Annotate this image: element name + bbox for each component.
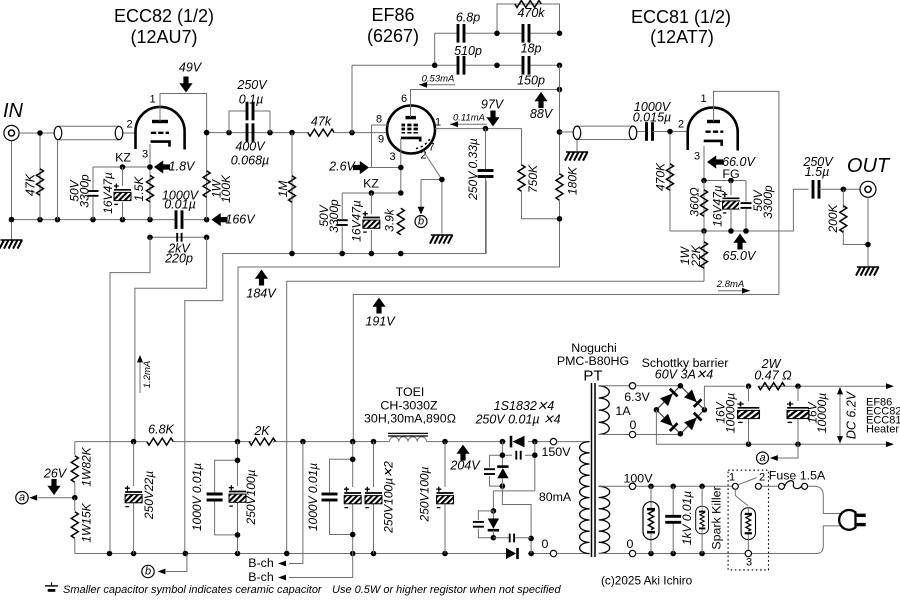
2.6V marker [328, 160, 369, 175]
snubber wire row1 [490, 442, 538, 491]
svg-text:1.2mA: 1.2mA [142, 361, 153, 388]
svg-text:250V22µ: 250V22µ [142, 471, 156, 520]
resistor 1M [276, 133, 296, 254]
svg-text:0: 0 [630, 418, 637, 432]
svg-text:200K: 200K [826, 203, 840, 233]
ground EF86 pin7 [430, 235, 453, 244]
resistor 1W15K [71, 498, 93, 554]
resistor 6.8K [147, 423, 175, 446]
191V marker [365, 298, 396, 329]
ECC82 B+ riser [135, 237, 207, 441]
bridge diode BR [684, 413, 701, 430]
capacitor snubber1 [516, 451, 520, 460]
svg-text:2: 2 [678, 119, 684, 131]
terminal 0 HV [542, 537, 557, 557]
node b bottom [142, 554, 187, 578]
resistor 470K ECC81 grid [654, 129, 674, 231]
svg-text:22K: 22K [689, 244, 703, 267]
svg-text:3: 3 [694, 151, 700, 163]
svg-text:60V 3A✕4: 60V 3A✕4 [655, 368, 713, 382]
svg-text:16V47µ: 16V47µ [350, 200, 364, 242]
KZ label [115, 151, 131, 165]
svg-text:88V: 88V [530, 107, 554, 121]
node a right [757, 444, 799, 464]
OUT jack J2 [860, 181, 876, 197]
svg-text:1: 1 [729, 472, 735, 484]
capacitor 50V 3300p ECC81 [739, 181, 775, 232]
capacitor 1000V 0.015µ [633, 100, 688, 141]
66.0V marker [707, 155, 756, 169]
svg-text:(c)2025 Aki Ichiro: (c)2025 Aki Ichiro [601, 574, 693, 588]
shielded cable interstage [560, 126, 647, 151]
166V marker [212, 213, 257, 227]
svg-text:16V47µ: 16V47µ [101, 172, 115, 214]
resistor 47K grid leak [24, 130, 44, 219]
surge lamp 1 [643, 486, 659, 553]
svg-text:2.8mA: 2.8mA [716, 279, 744, 290]
svg-text:180K: 180K [566, 166, 580, 195]
winding HV secondary [557, 442, 590, 554]
wire AC primary bottom [636, 551, 817, 557]
wire B-ch feed 2 [248, 554, 352, 585]
svg-text:(6267): (6267) [367, 26, 419, 46]
title ECC81 [631, 7, 731, 47]
resistor 1W 100K plate load [203, 133, 233, 220]
capacitor 250V 0.1µ [229, 78, 270, 133]
wire feedback row1 [435, 31, 563, 66]
svg-text:6.8p: 6.8p [456, 11, 480, 25]
tube ECC82 plate [152, 120, 168, 123]
fuse F1 [761, 469, 826, 490]
annotation 0.53mA [419, 74, 455, 88]
svg-text:a: a [759, 452, 765, 464]
svg-text:1kV 0.01µ: 1kV 0.01µ [680, 491, 694, 545]
svg-text:1.5µ: 1.5µ [805, 165, 830, 179]
diode D2 [497, 467, 508, 479]
wire screen pin6 [411, 87, 563, 117]
svg-text:ECC82 (1/2): ECC82 (1/2) [114, 6, 214, 26]
b-node arrow EF86 [418, 180, 425, 215]
wire cathode bottom node [670, 189, 809, 234]
svg-text:0: 0 [627, 537, 634, 551]
wire AC to bridge [636, 386, 681, 435]
terminal 100V [624, 472, 654, 557]
svg-text:250V: 250V [236, 78, 268, 92]
capacitor 18p [521, 24, 542, 56]
resistor 1W 22K [678, 231, 708, 281]
wire ECC81 B+ line [353, 295, 779, 442]
tube ECC81 envelope [688, 108, 738, 151]
svg-text:KZ: KZ [363, 177, 379, 191]
svg-text:1.5K: 1.5K [132, 176, 146, 202]
svg-text:TOEI: TOEI [396, 385, 425, 399]
capacitor 16V10000µ h1 [714, 386, 761, 444]
svg-text:3: 3 [746, 557, 752, 569]
svg-text:1: 1 [435, 117, 441, 129]
tube EF86 envelope [387, 106, 435, 154]
wire cathode return line [287, 281, 704, 553]
DC 6.2V span arrow [837, 387, 859, 444]
svg-text:CH-3030Z: CH-3030Z [380, 399, 438, 413]
svg-text:ECC81 (1/2): ECC81 (1/2) [631, 7, 731, 27]
svg-text:100V: 100V [624, 472, 654, 486]
svg-text:2.6V: 2.6V [328, 160, 356, 174]
svg-text:Heater: Heater [866, 424, 899, 436]
svg-text:3300p: 3300p [327, 199, 341, 233]
svg-text:10000µ: 10000µ [724, 393, 738, 433]
wire cathode pin3 [369, 139, 404, 193]
184V marker [246, 270, 277, 301]
svg-text:2K: 2K [253, 424, 270, 438]
svg-text:3: 3 [142, 149, 148, 161]
ECC82 ground riser [110, 237, 150, 553]
svg-text:1000V 0.01µ: 1000V 0.01µ [306, 463, 320, 531]
winding 6.3V heater [599, 386, 630, 435]
tube EF86 screen grids [402, 125, 418, 129]
capacitor snubber4 [493, 534, 531, 543]
svg-text:166V: 166V [225, 213, 256, 227]
svg-text:1W15K: 1W15K [80, 502, 94, 542]
tube EF86 cathode [401, 138, 420, 142]
resistor 470k feedback [515, 1, 546, 21]
tube ECC82 (1/2) envelope [136, 107, 185, 150]
resistor 750K [518, 164, 560, 219]
svg-text:250V 0.01µ ✕4: 250V 0.01µ ✕4 [474, 413, 560, 427]
capacitor 1000V 0.01µ decoupling [162, 189, 200, 229]
svg-text:8: 8 [376, 114, 382, 126]
svg-text:KZ: KZ [115, 151, 131, 165]
svg-text:DC 6.2V: DC 6.2V [845, 390, 859, 439]
rectifier bridge frame [654, 383, 708, 437]
svg-text:470K: 470K [654, 162, 668, 191]
svg-text:191V: 191V [365, 315, 396, 329]
svg-text:1S1832✕4: 1S1832✕4 [494, 399, 555, 413]
svg-text:10000µ: 10000µ [815, 393, 829, 433]
svg-text:Spark Killer: Spark Killer [710, 486, 724, 549]
shielded cable input [54, 126, 123, 219]
tube ECC81 cathode [704, 141, 722, 146]
capacitor 50V 3300p ECC82 cathode [68, 167, 101, 220]
KZ label EF86 [363, 177, 379, 191]
tube EF86 control grid [402, 132, 418, 134]
97V marker [481, 98, 505, 127]
capacitor 250V100µ filter1 [228, 442, 258, 554]
label Schottky [642, 356, 729, 382]
svg-text:OUT: OUT [847, 155, 891, 177]
svg-text:150V: 150V [542, 445, 572, 459]
svg-text:47K: 47K [24, 173, 38, 196]
terminal 6.3V [615, 383, 650, 438]
svg-text:0.015µ: 0.015µ [633, 111, 671, 125]
wire pin8 to cathode [372, 125, 389, 168]
wire B-ch feed 1 [248, 442, 303, 570]
note ceramic symbol [45, 582, 58, 590]
ground cable shield [565, 152, 588, 161]
resistor 360Ω [688, 181, 708, 232]
FG label [722, 167, 739, 181]
wire jack ground drop [11, 141, 13, 240]
svg-text:0.47 Ω: 0.47 Ω [754, 369, 792, 383]
note wattage [332, 584, 562, 596]
annotation 0.11mA [450, 112, 487, 127]
svg-text:7: 7 [428, 142, 434, 154]
node a left [16, 492, 28, 504]
capacitor 16V47µ ECC82 cathode [101, 167, 132, 220]
svg-text:80mA: 80mA [539, 490, 572, 504]
svg-text:6.8K: 6.8K [148, 423, 174, 437]
pin labels EF86 [376, 93, 441, 163]
wire ground rail PSU [75, 551, 551, 557]
svg-text:400V: 400V [235, 140, 266, 154]
wire feedback row2 [352, 63, 562, 133]
wire to plug neutral [816, 526, 842, 554]
svg-text:1M: 1M [276, 181, 290, 198]
resistor 2K [249, 424, 275, 445]
bridge diode TL [660, 389, 677, 406]
svg-text:b: b [145, 566, 151, 578]
title ECC82 [114, 6, 214, 47]
svg-text:PT: PT [583, 368, 602, 385]
svg-text:0.1µ: 0.1µ [239, 93, 264, 107]
IN label [3, 100, 24, 122]
capacitor 1kV 0.01µ [665, 486, 694, 553]
svg-text:30H,30mA,890Ω: 30H,30mA,890Ω [364, 412, 456, 426]
capacitor 16V47µ ECC81 [711, 181, 742, 232]
resistor 200K output [826, 189, 868, 244]
wire ECC81 plate to B+ [714, 91, 779, 294]
svg-text:0: 0 [542, 537, 549, 551]
tube ECC81 grid [706, 130, 724, 132]
capacitor snubber2 [484, 455, 502, 486]
svg-text:97V: 97V [481, 98, 505, 112]
resistor 1.5K ECC82 cathode [132, 175, 154, 201]
pin labels ECC81 [678, 93, 707, 163]
diode D3 [488, 508, 499, 538]
svg-text:EF86: EF86 [371, 5, 414, 25]
wire plate node to coupling caps [204, 130, 309, 136]
wire OUT jack ground [865, 197, 871, 266]
svg-text:0.068µ: 0.068µ [231, 154, 269, 168]
svg-text:3300p: 3300p [761, 185, 775, 219]
wire ECC81 cathode drop [703, 146, 705, 181]
capacitor 250V22µ [124, 442, 156, 554]
ground rail ECC82 stage [9, 217, 210, 223]
svg-text:1W82K: 1W82K [80, 446, 94, 486]
label 80mA [539, 490, 572, 504]
wire AC primary top [636, 484, 732, 490]
svg-text:PMC-B80HG: PMC-B80HG [557, 354, 629, 368]
copyright [601, 574, 693, 588]
capacitor 250V100µ filter2 [343, 442, 363, 554]
svg-text:1.8V: 1.8V [169, 160, 196, 174]
svg-text:1A: 1A [615, 404, 631, 418]
switch box dotted [728, 470, 768, 570]
capacitor 250V 1.5µ output [802, 155, 860, 199]
EF86 stage ground rail [185, 181, 486, 554]
svg-text:1: 1 [700, 93, 706, 105]
AC plug [839, 510, 866, 530]
wire cathode drop pin3 [149, 144, 151, 220]
node b circle EF86 [415, 216, 427, 228]
svg-text:3: 3 [389, 151, 395, 163]
26V marker [43, 467, 68, 496]
svg-text:26V: 26V [43, 467, 68, 481]
ground below IN jack [0, 240, 23, 249]
surge lamp 2 spark killer [696, 486, 724, 553]
capacitor 2kV 220p [147, 233, 209, 266]
bridge diode TR [684, 390, 701, 407]
svg-text:100K: 100K [219, 174, 233, 203]
label transformer PT [557, 341, 629, 385]
bridge diode BL [660, 414, 677, 431]
wire DC- heater [656, 410, 894, 447]
svg-text:3.9k: 3.9k [383, 208, 397, 232]
resistor 3.9k EF86 cathode [383, 208, 405, 235]
ground OUT [856, 267, 879, 276]
note ceramic text [63, 584, 323, 596]
svg-text:184V: 184V [246, 287, 277, 301]
capacitor 6.8p [456, 11, 480, 43]
svg-text:1: 1 [149, 94, 155, 106]
resistor 1W82K [71, 442, 93, 498]
svg-text:a: a [19, 492, 25, 504]
svg-text:150p: 150p [517, 74, 545, 88]
65.0V marker [723, 234, 757, 264]
annotation 2.8mA [716, 279, 750, 294]
capacitor 250V100µ filter4 [418, 442, 456, 554]
svg-text:(12AU7): (12AU7) [130, 27, 197, 47]
title EF86 [367, 5, 419, 46]
49V marker [179, 61, 203, 93]
choke TOEI CH-3030Z [364, 385, 456, 442]
svg-text:6.3V: 6.3V [624, 390, 650, 404]
transformer core [592, 383, 596, 557]
winding 100V primary [599, 486, 630, 553]
resistor 0.47Ω [754, 357, 792, 390]
svg-text:49V: 49V [179, 61, 203, 75]
wire KZ top [93, 164, 153, 170]
88V marker [530, 92, 554, 121]
wire doubler mid [493, 478, 534, 554]
capacitor 400V 0.068µ [231, 123, 269, 167]
resistor 180K [238, 166, 580, 442]
diode D4 [506, 548, 518, 559]
capacitor snubber3 [473, 511, 496, 541]
svg-text:9: 9 [378, 134, 384, 146]
svg-text:250V100µ✕2: 250V100µ✕2 [382, 461, 396, 534]
svg-text:250V100µ: 250V100µ [244, 469, 258, 525]
terminal 150V [542, 438, 572, 459]
tube ECC82 grid [151, 132, 169, 134]
svg-text:360Ω: 360Ω [688, 187, 702, 216]
svg-text:B-ch: B-ch [248, 570, 274, 584]
capacitor 50V 3300p EF86 cathode [317, 193, 349, 254]
svg-text:1000V 0.01µ: 1000V 0.01µ [190, 463, 204, 531]
IN jack J1 [4, 125, 19, 140]
svg-text:18p: 18p [521, 42, 542, 56]
svg-text:(12AT7): (12AT7) [650, 27, 714, 47]
svg-text:47k: 47k [311, 115, 332, 129]
wire plate pin1 to node [160, 94, 207, 133]
diode D1 [511, 436, 525, 448]
capacitor 510p [454, 44, 482, 75]
wire pin2 pin7 to ground [421, 151, 445, 234]
svg-text:250V100µ: 250V100µ [418, 466, 432, 522]
svg-text:2: 2 [126, 119, 132, 131]
OUT label [847, 155, 891, 177]
wire cathode node [701, 178, 746, 184]
svg-text:16V47µ: 16V47µ [711, 185, 725, 227]
svg-text:b: b [418, 216, 424, 228]
tube ECC81 plate [707, 120, 720, 123]
svg-text:250V 0.33µ: 250V 0.33µ [466, 138, 480, 201]
switch S1 [729, 472, 765, 490]
label 1S1832 [474, 399, 560, 427]
wire B+ rail [75, 439, 551, 445]
tube ECC82 cathode [151, 142, 170, 147]
svg-text:B-ch: B-ch [248, 556, 274, 570]
svg-text:IN: IN [3, 100, 24, 122]
wire 26V tap [29, 495, 77, 501]
svg-text:Use 0.5W or higher registor wh: Use 0.5W or higher registor when not spe… [332, 584, 562, 596]
1.8V marker [154, 160, 196, 174]
capacitor 150p [517, 56, 545, 87]
svg-text:750K: 750K [526, 164, 540, 193]
svg-text:6: 6 [401, 93, 407, 105]
svg-text:2: 2 [759, 472, 765, 484]
wire feedback top 470k rail [497, 4, 560, 33]
svg-text:65.0V: 65.0V [723, 249, 757, 263]
tube EF86 top electrode [406, 116, 417, 119]
svg-text:204V: 204V [449, 459, 481, 473]
svg-text:220p: 220p [164, 252, 193, 266]
annotation 1.2mA [137, 355, 153, 393]
capacitor 1000V 0.01µ filter1 [190, 460, 238, 535]
wire IN to grid [19, 132, 136, 134]
204V marker [449, 445, 481, 473]
capacitor 16V10000µ h2 [787, 386, 830, 444]
svg-text:470k: 470k [517, 6, 545, 20]
svg-text:3300p: 3300p [78, 174, 92, 208]
svg-text:Smaller capacitor symbol indic: Smaller capacitor symbol indicates ceram… [63, 584, 323, 596]
wire EF86 plate [435, 126, 522, 166]
label heater loads [866, 397, 900, 436]
pin labels ECC82 [126, 94, 155, 161]
capacitor 250V 0.33µ [466, 129, 494, 254]
svg-text:0.01µ: 0.01µ [164, 198, 196, 212]
svg-text:510p: 510p [454, 44, 482, 58]
tube EF86 suppressor arc [416, 139, 430, 149]
resistor 47k series [308, 115, 388, 137]
wire to plug hot [808, 486, 842, 513]
svg-text:Noguchi: Noguchi [571, 341, 616, 355]
svg-text:Fuse 1.5A: Fuse 1.5A [769, 469, 826, 483]
wire feedback column [557, 65, 563, 175]
surge lamp 3 [735, 489, 755, 568]
wire KZ top EF86 [342, 190, 403, 196]
capacitor 250V100µ filter3 [364, 442, 396, 554]
capacitor 1000V 0.01µ filter2 [306, 459, 353, 534]
capacitor 16V47µ EF86 cathode [350, 193, 382, 254]
wire DC+ heater [704, 383, 894, 409]
